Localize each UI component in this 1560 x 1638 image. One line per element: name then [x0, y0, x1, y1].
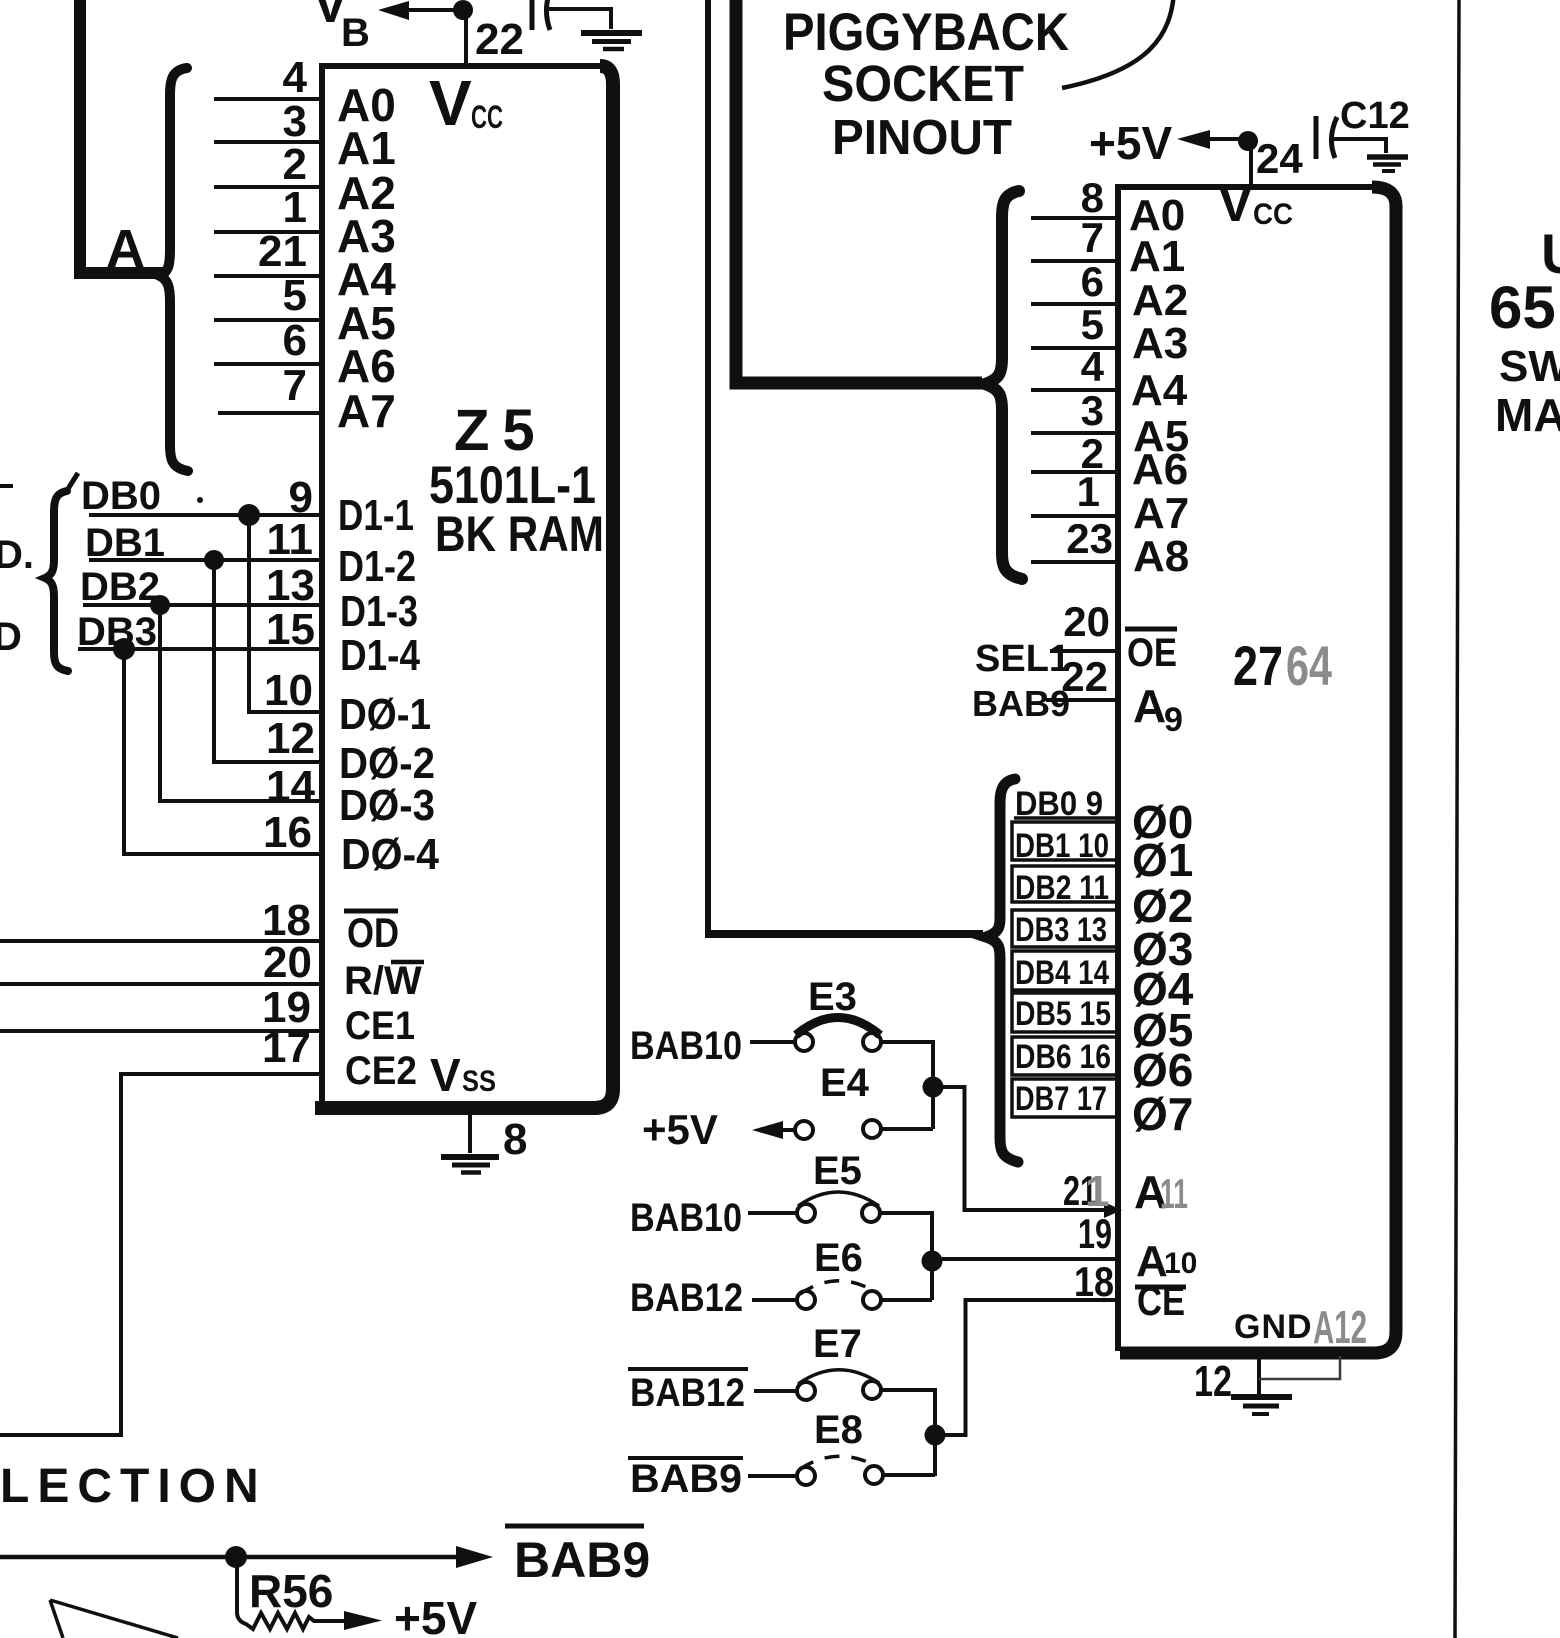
svg-text:A1: A1	[1129, 232, 1185, 281]
svg-text:A4: A4	[1131, 366, 1188, 415]
svg-text:OE: OE	[1127, 631, 1177, 675]
svg-text:A8: A8	[1133, 532, 1189, 581]
svg-text:18: 18	[1074, 1258, 1114, 1305]
svg-text:D1-4: D1-4	[340, 631, 420, 680]
svg-text:CE2: CE2	[345, 1049, 417, 1093]
svg-text:BK RAM: BK RAM	[435, 506, 604, 562]
svg-text:DØ-1: DØ-1	[339, 690, 431, 739]
svg-text:8: 8	[503, 1115, 527, 1164]
svg-text:16: 16	[263, 808, 312, 857]
svg-text:DB3 13: DB3 13	[1015, 911, 1107, 949]
svg-text:+5V: +5V	[642, 1106, 718, 1153]
svg-text:Ø7: Ø7	[1132, 1088, 1193, 1140]
svg-text:BAB9: BAB9	[630, 1457, 742, 1501]
svg-text:D1-3: D1-3	[340, 587, 418, 636]
svg-text:BAB12: BAB12	[630, 1276, 743, 1320]
svg-text:A6: A6	[1132, 445, 1188, 494]
svg-text:4: 4	[283, 53, 308, 102]
svg-text:1: 1	[283, 183, 307, 232]
svg-text:CC: CC	[1253, 198, 1293, 231]
svg-text:MA: MA	[1495, 389, 1560, 441]
svg-text:A12: A12	[1313, 1301, 1367, 1353]
svg-text:12: 12	[266, 714, 315, 763]
svg-text:4: 4	[1081, 343, 1105, 390]
svg-text:BAB9: BAB9	[972, 683, 1070, 724]
svg-text:A2: A2	[1132, 276, 1188, 325]
svg-text:DB6 16: DB6 16	[1015, 1038, 1111, 1076]
svg-text:BAB12: BAB12	[630, 1371, 745, 1415]
svg-text:CC: CC	[471, 99, 503, 135]
svg-text:V: V	[1218, 175, 1253, 233]
svg-text:3: 3	[283, 97, 307, 146]
svg-text:DB0 9: DB0 9	[1015, 785, 1103, 823]
svg-text:7: 7	[283, 361, 307, 410]
svg-text:CE: CE	[1137, 1277, 1185, 1324]
svg-text:A3: A3	[1132, 319, 1188, 368]
svg-text:1: 1	[1085, 1167, 1109, 1216]
svg-text:14: 14	[266, 762, 315, 811]
svg-text:V: V	[429, 67, 472, 139]
svg-text:R/W: R/W	[344, 959, 422, 1003]
svg-text:E5: E5	[813, 1149, 862, 1193]
svg-text:DB1 10: DB1 10	[1015, 827, 1109, 865]
svg-text:13: 13	[266, 561, 315, 610]
svg-text:E6: E6	[814, 1236, 863, 1280]
svg-text:+5V: +5V	[394, 1592, 477, 1638]
svg-text:DB4 14: DB4 14	[1015, 954, 1109, 992]
svg-text:Ø1: Ø1	[1132, 834, 1193, 886]
svg-text:+5V: +5V	[1089, 117, 1172, 169]
svg-text:19: 19	[1078, 1210, 1112, 1257]
svg-text:DØ-4: DØ-4	[341, 830, 439, 879]
svg-text:15: 15	[266, 605, 315, 654]
svg-text:20: 20	[1063, 598, 1110, 645]
svg-text:9: 9	[1164, 701, 1183, 739]
svg-text:BAB9: BAB9	[514, 1532, 650, 1588]
svg-text:7: 7	[1081, 214, 1104, 261]
svg-text:6: 6	[283, 316, 307, 365]
svg-text:R56: R56	[249, 1565, 333, 1617]
svg-text:23: 23	[1066, 515, 1113, 562]
svg-text:5: 5	[1081, 301, 1104, 348]
svg-text:3: 3	[1081, 387, 1104, 434]
svg-text:27: 27	[1233, 634, 1283, 697]
svg-text:PINOUT: PINOUT	[832, 111, 1012, 165]
svg-text:10: 10	[264, 666, 313, 715]
svg-text:12: 12	[1194, 1357, 1232, 1406]
svg-text:64: 64	[1286, 634, 1332, 697]
svg-text:22: 22	[475, 15, 524, 64]
svg-text:D1-1: D1-1	[338, 491, 414, 540]
svg-text:PIGGYBACK: PIGGYBACK	[783, 3, 1069, 62]
svg-text:DØ-3: DØ-3	[339, 781, 435, 830]
svg-text:LECTION: LECTION	[0, 1460, 267, 1513]
svg-text:DB2 11: DB2 11	[1015, 869, 1109, 907]
svg-text:1: 1	[1077, 468, 1100, 515]
svg-text:11: 11	[1160, 1170, 1188, 1217]
svg-text:DB7 17: DB7 17	[1015, 1080, 1107, 1118]
svg-text:20: 20	[263, 938, 312, 987]
svg-text:OD: OD	[347, 909, 399, 956]
svg-text:DB0: DB0	[81, 474, 161, 518]
svg-text:DB5 15: DB5 15	[1015, 995, 1111, 1033]
svg-text:10: 10	[1164, 1247, 1197, 1280]
svg-text:SOCKET: SOCKET	[822, 55, 1024, 112]
svg-text:V: V	[430, 1049, 461, 1101]
svg-text:B: B	[341, 11, 370, 55]
svg-text:DB3: DB3	[77, 610, 157, 654]
svg-text:D.: D.	[0, 533, 34, 577]
svg-text:24: 24	[1256, 135, 1303, 182]
svg-text:SS: SS	[462, 1065, 496, 1098]
svg-text:SEL1: SEL1	[975, 638, 1070, 680]
svg-text:DB1: DB1	[85, 521, 165, 565]
svg-text:65: 65	[1489, 274, 1556, 341]
svg-text:21: 21	[258, 227, 307, 276]
svg-text:D: D	[0, 615, 22, 659]
svg-text:E3: E3	[808, 975, 857, 1019]
svg-text:5: 5	[283, 271, 307, 320]
svg-text:E4: E4	[820, 1061, 870, 1105]
svg-text:C12: C12	[1340, 95, 1410, 137]
svg-text:2: 2	[283, 140, 307, 189]
svg-text:A7: A7	[337, 385, 396, 437]
svg-text:D1-2: D1-2	[338, 542, 416, 591]
svg-text:E8: E8	[814, 1408, 863, 1452]
svg-text:BAB10: BAB10	[630, 1024, 742, 1068]
svg-text:GND: GND	[1234, 1308, 1313, 1346]
svg-text:11: 11	[266, 515, 313, 564]
svg-text:DB2: DB2	[80, 565, 160, 609]
svg-text:E7: E7	[813, 1322, 862, 1366]
svg-text:Z5: Z5	[454, 398, 548, 463]
svg-text:A7: A7	[1133, 489, 1189, 538]
svg-text:BAB10: BAB10	[630, 1196, 742, 1240]
svg-text:17: 17	[262, 1023, 311, 1072]
svg-text:6: 6	[1081, 258, 1104, 305]
svg-text:SW: SW	[1499, 342, 1560, 391]
svg-text:A: A	[1133, 680, 1166, 732]
svg-text:CE1: CE1	[345, 1004, 415, 1048]
svg-text:A: A	[106, 219, 145, 279]
